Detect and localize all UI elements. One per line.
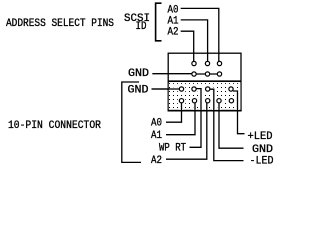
svg-text:GND: GND xyxy=(128,68,149,80)
svg-text:+LED: +LED xyxy=(248,131,273,143)
svg-text:A0: A0 xyxy=(151,117,162,129)
svg-text:WP RT: WP RT xyxy=(159,143,186,155)
svg-text:10-PIN CONNECTOR: 10-PIN CONNECTOR xyxy=(8,120,101,132)
svg-text:A2: A2 xyxy=(168,27,179,39)
svg-text:A2: A2 xyxy=(151,155,162,167)
svg-text:GND: GND xyxy=(128,85,149,97)
svg-text:-LED: -LED xyxy=(250,155,274,167)
svg-text:ADDRESS SELECT PINS: ADDRESS SELECT PINS xyxy=(6,18,114,30)
svg-text:A1: A1 xyxy=(151,130,162,142)
svg-text:GND: GND xyxy=(252,144,273,156)
svg-text:ID: ID xyxy=(136,21,147,33)
